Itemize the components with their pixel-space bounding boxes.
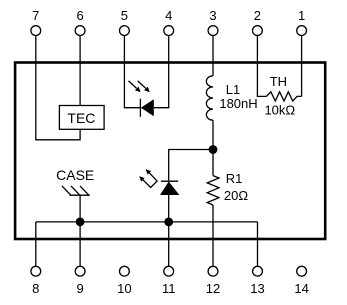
svg-text:7: 7 (32, 8, 39, 23)
pin 7 circle (31, 26, 41, 36)
svg-text:20Ω: 20Ω (224, 188, 248, 203)
node case/pin 9 (76, 218, 85, 227)
svg-text:3: 3 (209, 8, 216, 23)
svg-text:5: 5 (121, 8, 128, 23)
svg-text:10kΩ: 10kΩ (264, 103, 295, 118)
wire pin 2 to TH (257, 62, 266, 97)
pin 4 wire (168, 36, 170, 62)
pin 5 circle (120, 26, 130, 36)
node laser/pin 11 (164, 218, 173, 227)
wire pin 5 to photodiode cathode (124, 62, 140, 108)
pin 13 circle (253, 266, 263, 276)
svg-text:180nH: 180nH (219, 96, 257, 111)
pin 5 wire (123, 36, 125, 62)
wire pin 6 to TEC top (79, 62, 81, 106)
case chassis symbol (62, 186, 90, 195)
pin 2 circle (253, 26, 263, 36)
svg-text:L1: L1 (226, 82, 240, 97)
svg-text:R1: R1 (226, 171, 243, 186)
pin 1 wire (301, 36, 303, 62)
wire pin 9 (79, 222, 81, 266)
wire node to R1 (212, 150, 214, 176)
wire pin 7 to TEC bottom (36, 62, 80, 140)
svg-text:2: 2 (254, 8, 261, 23)
svg-text:10: 10 (117, 281, 131, 296)
svg-text:4: 4 (165, 8, 172, 23)
photodiode triangle (141, 99, 154, 116)
thermistor TH zigzag (266, 92, 301, 101)
wire pin 3 to L1 (212, 62, 214, 76)
wire photodiode anode to pin 4 (154, 62, 169, 108)
wire node to laser diode (169, 150, 213, 182)
svg-text:6: 6 (76, 8, 83, 23)
pin 3 circle (208, 26, 218, 36)
pin 10 circle (120, 266, 130, 276)
svg-text:8: 8 (32, 281, 39, 296)
photodiode cathode bar (139, 99, 141, 117)
pin 4 circle (164, 26, 174, 36)
svg-text:9: 9 (76, 281, 83, 296)
package outline (15, 63, 325, 240)
wire case symbol to node (79, 195, 81, 222)
node L1/R1/laser junction (209, 145, 218, 154)
pin 12 circle (208, 266, 218, 276)
pin 6 wire (79, 36, 81, 62)
laser diode triangle (160, 182, 179, 196)
svg-text:CASE: CASE (56, 167, 94, 183)
pin 1 circle (297, 26, 307, 36)
laser light emission arrows (139, 169, 157, 187)
inductor L1 (206, 76, 213, 120)
pin 7 wire (35, 36, 37, 62)
common bottom wire (36, 221, 258, 223)
svg-text:13: 13 (250, 281, 264, 296)
wire pin 11 (168, 222, 170, 266)
wire TH to pin 1 (301, 62, 303, 97)
light arrow into photodiode 1 (129, 81, 141, 92)
wire R1 to pin 12 (212, 205, 214, 266)
svg-text:1: 1 (298, 8, 305, 23)
TEC module box (59, 106, 104, 130)
wire L1 to node (212, 120, 214, 149)
pin 9 circle (75, 266, 85, 276)
pin 6 circle (75, 26, 85, 36)
pin 11 circle (164, 266, 174, 276)
laser diode cathode bar (161, 180, 178, 182)
wire pin 13 (257, 222, 259, 266)
resistor R1 zigzag (207, 176, 219, 205)
pin 14 circle (297, 266, 307, 276)
svg-text:14: 14 (294, 281, 308, 296)
pin 3 wire (212, 36, 214, 62)
light arrow into photodiode 2 (138, 81, 150, 92)
svg-text:TH: TH (270, 74, 287, 89)
svg-text:TEC: TEC (67, 110, 95, 126)
pin 8 circle (31, 266, 41, 276)
wire pin 8 (35, 222, 37, 266)
svg-text:12: 12 (206, 281, 220, 296)
pin 2 wire (256, 36, 258, 62)
svg-text:11: 11 (162, 281, 176, 296)
wire laser anode to node (168, 195, 170, 222)
